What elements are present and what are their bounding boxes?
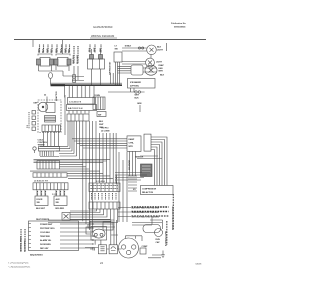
horizontals above compressor	[132, 223, 162, 226]
fuse F1 lead	[50, 79, 52, 85]
relay K1 bracket	[38, 54, 52, 56]
fan wires	[118, 66, 158, 73]
switch box 2	[54, 196, 67, 206]
svg-text:# = Fast-moving Parts: # = Fast-moving Parts	[8, 262, 28, 265]
svg-text:HARNESS: HARNESS	[115, 174, 118, 184]
timer cam box	[46, 103, 55, 113]
svg-text:AUX: AUX	[56, 198, 61, 201]
svg-text:SW: SW	[98, 115, 101, 117]
svg-text:GLRS267ZDW0: GLRS267ZDW0	[93, 25, 113, 29]
striped box B	[37, 161, 60, 170]
svg-text:SOLENOID: SOLENOID	[129, 159, 131, 170]
start device leads	[95, 240, 101, 245]
small box above compressor	[103, 222, 113, 230]
connector block CN1	[93, 97, 105, 110]
compressor feed verticals	[119, 152, 127, 222]
strip A	[39, 147, 60, 152]
svg-text:BLK WHT: BLK WHT	[36, 208, 46, 210]
svg-text:POWER WHT: POWER WHT	[40, 224, 53, 226]
horizontal lines right mid	[115, 173, 150, 181]
cap box	[109, 245, 117, 254]
wires above compressor	[111, 234, 142, 237]
svg-text:CTRL: CTRL	[129, 143, 135, 145]
light switch leads down	[115, 62, 119, 85]
svg-text:BLK: BLK	[157, 47, 162, 49]
connector pair wire	[108, 88, 145, 92]
control box bottom pins	[130, 151, 136, 176]
svg-text:AEQ36756901: AEQ36756901	[30, 254, 44, 257]
svg-text:GRN BRN BLU GRY PNK BLK: GRN BRN BLU GRY PNK BLK	[132, 212, 160, 214]
svg-text:BLK: BLK	[135, 98, 140, 100]
ground symbol	[161, 251, 165, 258]
switch box 1	[35, 196, 48, 206]
relay K2 bracket	[56, 54, 70, 56]
svg-text:COLD BLK: COLD BLK	[40, 232, 51, 234]
heater wire above	[51, 82, 123, 84]
run cap wire	[150, 217, 163, 230]
svg-text:FAST FREEZE: FAST FREEZE	[36, 218, 50, 221]
left pin rows of relay board	[128, 176, 137, 191]
fresh food light wires	[122, 62, 146, 65]
relay K2 body	[58, 58, 69, 67]
relay K2 labels	[56, 48, 71, 53]
strip S2 pins	[69, 111, 89, 114]
wires left of transformer	[72, 66, 84, 81]
svg-text:24: 24	[100, 261, 103, 265]
control panel box	[29, 221, 79, 251]
defrost heater bar	[51, 84, 123, 86]
svg-text:WHT BLK RED ORG YEL BRN: WHT BLK RED ORG YEL BRN	[132, 217, 160, 219]
strip F	[89, 202, 120, 209]
label smudge columns	[74, 46, 78, 64]
start device box	[91, 227, 107, 241]
verticals from heater to strip1	[65, 86, 94, 98]
relay K1 lug right	[50, 59, 54, 65]
ground wire	[148, 255, 162, 258]
relay K2 lug left	[54, 59, 58, 65]
svg-text:FRZ TEMP ORG: FRZ TEMP ORG	[40, 228, 55, 230]
timer terminal box	[42, 125, 61, 132]
svg-text:ICE MAKER: ICE MAKER	[130, 81, 141, 84]
svg-text:SENSOR: SENSOR	[135, 157, 144, 159]
label smudge K2	[57, 45, 70, 53]
svg-text:1 2 3 4 5 6: 1 2 3 4 5 6	[96, 180, 106, 183]
svg-text:J2 CONN: J2 CONN	[101, 131, 110, 133]
wire to rule from K2	[62, 40, 64, 54]
transformer T1 lug right	[99, 55, 103, 60]
svg-text:P12 P13: P12 P13	[101, 128, 109, 130]
relay K2 leads	[56, 65, 69, 71]
top rule	[14, 39, 206, 41]
svg-text:LIGHT: LIGHT	[157, 50, 164, 52]
light L1	[147, 45, 157, 55]
transformer T1 body	[88, 59, 105, 69]
svg-text:DOOR: DOOR	[37, 199, 43, 201]
wires to rows	[118, 208, 131, 217]
svg-text:1 2 3 4 5 6 7 8: 1 2 3 4 5 6 7 8	[69, 101, 82, 104]
svg-text:MTR: MTR	[129, 146, 134, 148]
svg-text:5995539841: 5995539841	[174, 26, 186, 29]
light switch box	[114, 52, 122, 62]
svg-text:THERMOSTAT: THERMOSTAT	[109, 61, 112, 75]
freezer light wires	[122, 48, 147, 51]
left connector pins column	[27, 111, 36, 131]
svg-text:* = Non-Illustrated Parts: * = Non-Illustrated Parts	[8, 266, 30, 269]
legs below D	[37, 190, 64, 196]
svg-text:18 BLK: 18 BLK	[125, 46, 132, 48]
transformer T1 leads	[92, 49, 101, 55]
strip A legs	[40, 151, 59, 157]
svg-text:CONN: CONN	[94, 95, 100, 97]
control board feed bends right	[72, 139, 127, 148]
wire right of timer	[64, 95, 66, 135]
wire color labels column	[73, 54, 79, 64]
harness bend lines left mesh	[38, 146, 77, 156]
evap fan relay box	[131, 65, 143, 75]
panel row wires	[60, 224, 93, 248]
timer leads down	[44, 132, 59, 147]
svg-text:COMPRESSOR: COMPRESSOR	[142, 189, 157, 191]
node tick left	[32, 40, 34, 47]
connector pair dots	[135, 91, 137, 93]
run capacitor circle	[155, 229, 163, 237]
lamp link wire	[150, 55, 152, 59]
relay board box	[141, 186, 174, 195]
terminal marks	[73, 75, 76, 78]
fuse F1	[49, 73, 53, 79]
terminal block E	[89, 183, 120, 192]
svg-text:CONTROL PANEL: CONTROL PANEL	[20, 235, 23, 252]
svg-text:RUN: RUN	[156, 239, 161, 241]
svg-text:WIRING DIAGRAM: WIRING DIAGRAM	[91, 34, 115, 38]
relay K1 lug left	[37, 59, 41, 65]
svg-text:RELAY PCB: RELAY PCB	[142, 191, 153, 194]
start device ellipse	[93, 229, 105, 238]
feeds to compressor	[111, 220, 117, 245]
transformer T1 lug left	[90, 55, 94, 60]
right label smudge	[167, 194, 174, 245]
nested bends lower left	[48, 209, 118, 223]
cap marks	[90, 248, 95, 251]
heater bar dark end	[51, 84, 66, 86]
ice maker box	[128, 79, 156, 89]
label line right mid	[137, 156, 162, 159]
svg-text:FAN: FAN	[159, 67, 163, 70]
svg-text:(OPTION): (OPTION)	[130, 86, 139, 88]
svg-text:LIGHT: LIGHT	[156, 62, 163, 64]
bend lines mid mesh	[60, 165, 90, 169]
svg-text:BLK WHT RED ORG YEL GRN: BLK WHT RED ORG YEL GRN	[132, 208, 160, 210]
nested bends right of control	[151, 137, 167, 185]
under box D micro labels	[38, 191, 65, 196]
small boxes right of strips	[97, 112, 106, 117]
svg-text:CAP: CAP	[156, 241, 161, 244]
thermostat bulb mark	[33, 147, 36, 150]
wire into start boxes	[85, 248, 121, 250]
transformer T1 leads bottom	[92, 69, 101, 85]
terminal strip S1	[68, 98, 95, 105]
label smudge K1	[40, 45, 53, 53]
terminal strip S2	[67, 105, 97, 111]
run capacitor body	[143, 225, 161, 233]
svg-text:BLK: BLK	[160, 75, 165, 77]
svg-text:Publication No.: Publication No.	[171, 22, 187, 25]
narrow box right	[144, 134, 151, 151]
svg-text:BLK: BLK	[99, 121, 104, 123]
svg-text:EVAP: EVAP	[159, 64, 165, 67]
evap fan motor M1	[145, 65, 157, 75]
svg-text:TEMP RED: TEMP RED	[40, 236, 50, 238]
wire bundle below relays	[39, 71, 73, 76]
svg-text:ORG RED: ORG RED	[55, 208, 65, 210]
strip C	[33, 173, 67, 177]
bus lines across	[34, 159, 111, 162]
damper control box	[127, 136, 141, 152]
small box G	[62, 213, 70, 221]
svg-text:SW: SW	[115, 49, 118, 51]
micro labels between E and F	[92, 193, 117, 200]
small terminal right of compressor	[140, 248, 146, 254]
compressor windings	[121, 245, 125, 249]
terminal strip S3	[67, 114, 89, 121]
svg-text:ELECTRONIC: ELECTRONIC	[25, 239, 27, 252]
label smudge T1	[90, 45, 101, 53]
svg-text:ALARM YEL: ALARM YEL	[40, 239, 52, 242]
relay K1 leads	[39, 65, 52, 71]
svg-text:MTR: MTR	[159, 71, 164, 73]
left label smudges	[21, 229, 25, 252]
row smudge lines	[132, 207, 169, 212]
ptc box	[98, 245, 106, 254]
svg-text:64058: 64058	[196, 263, 203, 265]
relay K2 lug right	[67, 59, 71, 65]
lines below B	[30, 171, 113, 178]
compressor motor circle	[119, 238, 139, 258]
svg-text:L1 N 4 3 2 1 T H: L1 N 4 3 2 1 T H	[34, 180, 48, 183]
right tick at rule	[166, 43, 168, 51]
timer motor circle	[38, 102, 48, 112]
tick below connector	[139, 105, 141, 112]
svg-text:A B C D E F G H: A B C D E F G H	[68, 107, 83, 110]
svg-text:DEF GRY: DEF GRY	[40, 248, 49, 250]
terminal box D	[33, 183, 68, 190]
harness verticals bundle	[68, 121, 96, 232]
light L2	[146, 58, 155, 67]
defrost timer dashed box	[38, 100, 61, 133]
svg-text:GRN: GRN	[137, 103, 142, 105]
switch blob	[141, 164, 153, 177]
svg-text:COMP: COMP	[142, 246, 149, 248]
J2 feed verticals	[100, 133, 116, 183]
wires above band right	[111, 73, 114, 84]
timer heater box hatched	[45, 116, 56, 123]
relay K1 body	[40, 58, 50, 67]
svg-text:ADAPTER: ADAPTER	[55, 91, 58, 101]
svg-text:DOOR BRN: DOOR BRN	[40, 244, 51, 246]
svg-text:SW: SW	[56, 202, 59, 204]
relay K1 labels	[39, 48, 54, 53]
bends into start device	[86, 221, 115, 234]
transformer T1 labels	[89, 47, 102, 52]
svg-text:SW: SW	[37, 202, 40, 204]
svg-text:DAMP: DAMP	[129, 138, 135, 141]
connector dots light 1	[138, 47, 140, 49]
